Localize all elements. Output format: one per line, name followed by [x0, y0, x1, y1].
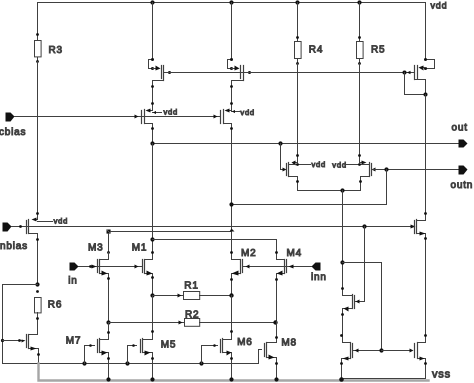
svg-text:M3: M3 [88, 242, 104, 253]
wire: outn branch down and left to T4 drain column [232, 170, 387, 205]
wire: M3 source column down to M7 drain [108, 323, 110, 340]
svg-text:out: out [452, 123, 468, 134]
net tap square (M3 drain node) [107, 230, 111, 234]
transistor M5 (bottom NMOS) [128, 339, 154, 380]
transistor M1 (input NMOS) [143, 251, 154, 295]
svg-text:vdd: vdd [312, 160, 327, 169]
transistor T7 (output PMOS right, mirrored, under R5) [343, 154, 376, 190]
wire: R5 bottom to T7 source [359, 64, 361, 156]
gate arrow at T4 [214, 115, 218, 119]
resistor R3 [35, 33, 42, 63]
wire: M1 drain line C to M4 drain [153, 240, 277, 260]
wire: vss black wire from T13 source [342, 378, 426, 380]
wire: T6/T7 drain node vertical down to T10 [342, 191, 344, 296]
gate arrow at M4 [289, 265, 294, 269]
wire: T5 source node down to T9 drain [425, 95, 427, 221]
transistor M3 (input NMOS) [98, 253, 110, 323]
junction T12/T13 gate line [379, 348, 383, 352]
transistor M8 (bottom NMOS, slightly lower) [259, 343, 278, 380]
resistor R1 [150, 292, 233, 300]
pin nbias [3, 223, 12, 232]
pin inn [312, 263, 321, 271]
junction M5 source on vss [150, 377, 154, 381]
wire: line from tap square to T4 drain column [111, 231, 232, 233]
wire: out vertical down to M1 drain [152, 144, 154, 253]
wire: gate line to T13 [382, 350, 412, 352]
resistor R5 [357, 3, 364, 65]
junction T8 drain / R6 top node [35, 282, 39, 286]
junction on nbias line at gate lead [19, 225, 22, 228]
svg-text:vdd: vdd [164, 108, 179, 117]
wire: cbias line to T3,T4 gates [15, 116, 221, 118]
junction M5 gate [125, 361, 129, 365]
pin in [70, 263, 79, 271]
transistor T1 (diode-connected PMOS, vdd rail to T3) [149, 3, 172, 104]
transistor T9 (NMOS cascode right, gate on nbias) [411, 95, 427, 336]
pin outn [459, 166, 468, 175]
svg-text:R5: R5 [371, 44, 385, 55]
junction link to T12/T13 gates [340, 260, 344, 264]
junction arrow at T4 drain column [230, 229, 235, 232]
svg-text:M7: M7 [66, 336, 82, 347]
transistor T3 (PMOS second row left) [142, 102, 162, 143]
wire: inn line to M4,M2 gates [243, 266, 312, 268]
junction T11 gate branch [1, 339, 4, 342]
svg-text:inn: inn [311, 272, 327, 283]
vss rail (grey wide wire) [39, 364, 429, 381]
wire: tail line (gates of M7,M5,M6,M8) [3, 363, 259, 365]
wire: M2 source column down to M6 drain [231, 296, 233, 340]
junction at T4 drain column [229, 202, 233, 206]
junction outn net branch [384, 167, 388, 171]
svg-text:cbias: cbias [0, 127, 26, 138]
svg-text:M6: M6 [237, 337, 253, 348]
gate arrow at M3 [92, 265, 97, 269]
transistor T4 (PMOS second row right) [221, 102, 241, 259]
resistor R4 [295, 3, 302, 65]
svg-text:M1: M1 [132, 242, 148, 253]
svg-text:M5: M5 [161, 340, 177, 351]
pin out [459, 140, 468, 148]
svg-text:M2: M2 [241, 248, 257, 259]
transistor T11 (NMOS bias, bottom left) [3, 335, 40, 364]
junction M7 source on vss [106, 377, 110, 381]
junction on in line [89, 265, 92, 268]
junction out net at T6 gate branch [278, 141, 282, 145]
wire: left branch from R6 top node [3, 285, 38, 364]
junction M8 source on vss [274, 377, 278, 381]
junction M2 drain pin [230, 251, 233, 254]
transistor T10 (mirrored NMOS, right stack) [340, 227, 364, 343]
svg-text:R2: R2 [185, 310, 199, 321]
transistor M7 (bottom NMOS) [85, 339, 110, 380]
transistor T2 (diode-connected PMOS, vdd rail to T4) [228, 3, 252, 104]
svg-text:nbias: nbias [0, 241, 28, 252]
transistor T12 (mirrored NMOS, bottom right pair left) [340, 343, 381, 380]
wire: tap square down to M3 drain [108, 234, 110, 260]
wire: out net horizontal (T3 drain, T6 gate, out pin) [153, 143, 459, 145]
gate arrow at M2 [246, 265, 250, 269]
transistor M2 (mirrored NMOS) [230, 260, 242, 296]
svg-text:R1: R1 [184, 280, 198, 291]
transistor M6 (bottom NMOS) [202, 339, 233, 380]
gate arrow at T3 [135, 115, 139, 119]
svg-text:in: in [68, 275, 77, 286]
wire: in line to M3,M1 gates [79, 266, 143, 268]
svg-text:vdd: vdd [54, 217, 69, 226]
wire: M4 source column down to M8 drain [276, 322, 278, 343]
junction M4 drain [275, 251, 278, 254]
wire: nbias line across to T9 gate [12, 226, 411, 228]
junction nbias line to T10 gate branch [362, 224, 366, 228]
wire: R3 bottom down to T8 source (crosses cbias line) [37, 62, 39, 214]
gate arrow at M1 [135, 265, 139, 269]
wire: M1 source column down to M5 drain [152, 296, 154, 340]
junction M6 gate [199, 361, 203, 365]
svg-text:vss: vss [432, 369, 451, 381]
wire: bulk line joining T1,T2,T5 bulks [164, 72, 415, 74]
svg-text:R3: R3 [49, 45, 63, 56]
junction M6 source on vss [229, 377, 233, 381]
resistor R2 [106, 319, 277, 327]
pin cbias [6, 113, 15, 122]
svg-text:R4: R4 [309, 44, 323, 55]
transistor T6 (output PMOS left, under R4) [281, 144, 343, 191]
svg-text:vdd: vdd [332, 161, 347, 170]
transistor T13 (NMOS, bottom right) [415, 334, 427, 378]
wire: vdd top rail [38, 2, 426, 4]
wire: link from drain node to T12/T13 gate line [343, 263, 382, 351]
wire: R4 bottom to T6 source [297, 64, 299, 156]
svg-text:vdd: vdd [431, 1, 448, 11]
wire: vdd rail left drop to R3 [37, 3, 39, 35]
junction M1 drain node [150, 237, 154, 241]
junction out net at T3 drain [150, 141, 154, 145]
svg-text:R6: R6 [48, 300, 62, 311]
svg-text:vdd: vdd [240, 108, 255, 117]
junction T6/T7 drains merge [340, 188, 344, 192]
svg-text:M4: M4 [287, 248, 303, 259]
transistor M4 (mirrored NMOS) [275, 260, 286, 322]
wire: outn net horizontal (T7 gate to outn pin) [372, 169, 459, 171]
gate arrow at T13 [410, 349, 414, 353]
transistor T5 (diode-connected PMOS, mirrored, top right) [403, 3, 435, 97]
resistor R6 [35, 290, 42, 334]
node vdd rail junctions [150, 0, 361, 4]
svg-text:outn: outn [451, 180, 474, 191]
junction T12 source on vss [339, 377, 344, 382]
junction M7 gate [82, 361, 86, 365]
transistor T8 (PMOS, nbias mirror with R3) [27, 212, 53, 284]
svg-text:M8: M8 [281, 338, 297, 349]
